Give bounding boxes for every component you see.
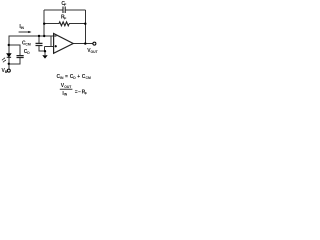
wire CCM tap down bbox=[38, 36, 40, 43]
formula VOUT/IIN = -RF bbox=[60, 83, 87, 97]
capacitor CF bbox=[63, 7, 65, 14]
svg-text:IN: IN bbox=[21, 26, 25, 30]
wire left vertical to photodiode bbox=[8, 36, 10, 54]
svg-text:CM: CM bbox=[25, 42, 30, 46]
wire RF branch right bbox=[69, 23, 85, 25]
wire feedback right vertical bbox=[84, 10, 86, 44]
terminal VB circle bbox=[7, 69, 10, 72]
photodiode triangle (anode) bbox=[7, 54, 11, 57]
node VB junction bbox=[8, 63, 10, 65]
wire VB stub bbox=[8, 64, 10, 69]
svg-text:OUT: OUT bbox=[91, 50, 99, 54]
wire rail drop to plus line bbox=[50, 36, 52, 46]
wire output rail bbox=[73, 43, 93, 45]
node photodiode anode junction bbox=[8, 44, 10, 46]
wire RF branch left bbox=[44, 23, 59, 25]
fraction bar bbox=[60, 88, 73, 90]
node inverting input (summing) junction bbox=[43, 35, 45, 37]
op-amp triangle body bbox=[54, 34, 74, 54]
svg-text:=: = bbox=[65, 74, 68, 80]
wire plus line down to ground node bbox=[44, 46, 46, 51]
op-amp inverting input minus sign bbox=[54, 35, 56, 37]
svg-text:F: F bbox=[64, 3, 66, 7]
current direction arrow IIN bbox=[19, 31, 32, 33]
capacitor CD bbox=[17, 56, 24, 58]
incident light arrows bbox=[2, 58, 6, 62]
svg-text:IN: IN bbox=[64, 93, 68, 97]
resistor RF bbox=[59, 22, 69, 26]
wire plus input line bbox=[45, 45, 54, 47]
svg-text:+: + bbox=[77, 74, 80, 80]
wire photodiode cathode to VB node bbox=[8, 57, 10, 64]
node output junction bbox=[84, 42, 86, 44]
wire CD bottom bbox=[9, 58, 20, 64]
svg-text:CM: CM bbox=[86, 76, 91, 80]
node CCM tap junction bbox=[38, 35, 40, 37]
arrow head bbox=[28, 31, 31, 33]
svg-text:IN: IN bbox=[60, 76, 64, 80]
photodiode cathode bar bbox=[7, 56, 11, 58]
wire CF branch right bbox=[66, 9, 86, 11]
op-amp non-inverting input plus sign bbox=[55, 45, 57, 47]
wire ground stub bbox=[44, 51, 46, 55]
op-amp U1 bbox=[54, 34, 74, 54]
svg-text:F: F bbox=[85, 91, 87, 95]
wire CD branch top bbox=[9, 45, 20, 55]
wire CF branch left bbox=[44, 9, 62, 11]
node RF left junction bbox=[43, 23, 45, 25]
node ground junction bbox=[44, 50, 46, 52]
photodiode D1 bbox=[2, 54, 11, 63]
ground bbox=[42, 55, 47, 58]
svg-text:F: F bbox=[64, 16, 66, 20]
wire main input rail bbox=[9, 35, 54, 37]
node RF right junction bbox=[84, 23, 86, 25]
capacitor CCM bbox=[36, 43, 43, 45]
terminal VOUT circle bbox=[93, 42, 96, 45]
wire feedback left vertical bbox=[43, 10, 45, 36]
arrow shaft bbox=[19, 31, 30, 33]
wire CCM bottom to ground node bbox=[39, 46, 45, 51]
svg-text:OUT: OUT bbox=[64, 85, 72, 89]
formula CIN = CD + CCM bbox=[57, 74, 91, 80]
